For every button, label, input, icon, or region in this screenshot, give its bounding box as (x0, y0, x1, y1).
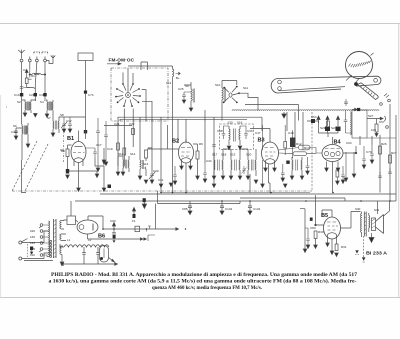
vert x167.5 (167, 125, 169, 149)
drum tick (371, 53, 374, 56)
junction FM square (84, 130, 87, 133)
svg-text:S16: S16 (237, 121, 243, 125)
svg-text:B1: B1 (67, 136, 74, 142)
svg-text:S17: S17 (212, 153, 218, 157)
B6 cathode down (87, 234, 89, 239)
pill box C51 (293, 152, 307, 156)
core hatch (54, 220, 57, 259)
wire B4 col (336, 177, 338, 181)
speaker cone (376, 215, 384, 234)
svg-text:R12: R12 (296, 142, 302, 146)
svg-text:L2: L2 (88, 238, 92, 242)
antenna A1 (18, 50, 24, 62)
svg-text:L1: L1 (67, 238, 71, 242)
resistor R1 (25, 78, 28, 84)
wire pills (279, 148, 317, 154)
junction dot B5 grid (315, 224, 317, 226)
capacitor C34 (203, 163, 207, 179)
wire top B+ feed (128, 65, 173, 67)
grid cap arc (385, 116, 386, 121)
chassis diagonal dashes (12, 141, 48, 191)
electrolytic C91 (112, 229, 116, 234)
bus step vertical (157, 191, 159, 204)
transformer S4/S5 right (46, 100, 53, 114)
selector dots column (50, 240, 52, 257)
feedthrough C2b (34, 93, 37, 96)
ground S2 (23, 113, 27, 117)
svg-text:S10: S10 (215, 83, 221, 87)
B2 pin grounds (180, 166, 193, 170)
tiny component labels (11, 68, 397, 257)
wire R30 (315, 239, 317, 246)
transformer S15 S16 (229, 126, 240, 145)
cap right of B4 (341, 166, 345, 180)
svg-text:C10: C10 (11, 130, 17, 134)
wires SK1 top stubs (123, 68, 133, 88)
svg-text:C64: C64 (346, 141, 352, 145)
coil S10 osc (222, 84, 225, 106)
FM dipole box (78, 53, 93, 61)
resistor R11 above B3 (284, 142, 287, 149)
wire A2 down (29, 62, 31, 69)
wire S13 down (140, 169, 146, 176)
svg-text:S2: S2 (17, 100, 21, 104)
svg-text:S23: S23 (320, 126, 326, 130)
anode arrows up (317, 116, 340, 123)
B+ bus (75, 200, 396, 202)
B+ dots (176, 72, 181, 75)
trimmer pair right (344, 99, 348, 106)
svg-text:C19: C19 (107, 147, 113, 151)
bus y203.5 segment (158, 201, 241, 204)
label B3 (258, 138, 265, 144)
B4 right column parts (336, 170, 339, 177)
svg-text:FM-OM·OC: FM-OM·OC (109, 58, 135, 63)
wire A3 lower (34, 96, 36, 101)
page boundary left (0, 95, 2, 298)
capacitor C1 ticks (20, 87, 30, 89)
wire down to HT (155, 204, 157, 230)
trimmer C13 (68, 117, 72, 129)
heater line right (148, 235, 155, 241)
tube B4 envelope (322, 145, 343, 162)
ground B1 under (95, 174, 99, 178)
grounds MF2 row (212, 176, 258, 184)
wire FM box lower (85, 94, 87, 139)
speaker hatch (372, 219, 376, 229)
svg-text:C31: C31 (158, 178, 164, 182)
box top stubs (141, 62, 148, 70)
arrow into box (352, 108, 357, 111)
svg-text:C39: C39 (247, 129, 253, 133)
ballast box (67, 216, 76, 225)
junction dot B4 (355, 152, 357, 154)
pill box C50 (299, 145, 311, 150)
svg-text:S12: S12 (166, 81, 172, 85)
svg-text:S18: S18 (221, 153, 227, 157)
mains terminal N (19, 257, 22, 260)
wires SK1 bottom verticals (118, 90, 146, 166)
ground S6 (26, 144, 30, 148)
svg-text:S31: S31 (374, 208, 380, 212)
svg-text:B5: B5 (321, 213, 328, 219)
switch SK1 contact dots (115, 83, 141, 107)
shield can dash vertical (311, 112, 313, 190)
B1 cathode resistor (66, 149, 69, 157)
B1 cathode (74, 158, 83, 160)
misc top-right ticks (384, 94, 389, 98)
B1 wires left (60, 145, 72, 169)
cap C33 ticks (212, 145, 216, 147)
B4 pin grounds (325, 168, 340, 172)
svg-text:C3b: C3b (39, 93, 45, 97)
scalloped dial cord band (232, 110, 379, 111)
svg-text:F1: F1 (132, 219, 136, 223)
small part x133 (132, 129, 135, 135)
rectifier B6 envelope (77, 220, 98, 234)
label FM-OM-OC (109, 58, 135, 63)
bottom psu rail (65, 263, 118, 266)
antenna terminal A3 (34, 52, 40, 62)
varcap C30 (149, 171, 156, 180)
svg-text:C90: C90 (110, 219, 116, 223)
label B5 (321, 213, 328, 219)
svg-text:C85: C85 (182, 207, 188, 211)
svg-text:C1b: C1b (14, 93, 20, 97)
blob B1k (66, 169, 69, 174)
choke filter humps (64, 245, 109, 247)
HT line y229 (103, 228, 179, 231)
svg-text:C54: C54 (311, 115, 317, 119)
svg-text:S11: S11 (243, 86, 248, 90)
svg-text:S19: S19 (230, 153, 236, 157)
junction dots psu (102, 228, 147, 230)
capacitor C71 (362, 146, 366, 165)
switch gang dashes (26, 244, 28, 257)
pivot blob (354, 82, 358, 86)
resistor R26 (379, 146, 382, 154)
wire grid lead (367, 117, 383, 120)
blob left of B5 (310, 218, 313, 221)
ground C30 (150, 180, 154, 184)
ground IF can (227, 146, 242, 150)
cap C52 (281, 164, 285, 178)
cap C53 (306, 157, 310, 171)
cap C85 left (188, 201, 192, 211)
choke left end (60, 244, 64, 247)
svg-text:S4: S4 (40, 100, 44, 104)
tuning drum circle (346, 52, 373, 79)
output transformer secondary (369, 213, 370, 232)
svg-text:S14: S14 (143, 162, 149, 166)
resistor R100 (375, 124, 378, 132)
pointer rod hatched (358, 83, 379, 100)
wire A3 down (35, 62, 37, 93)
ground C142 (220, 211, 224, 215)
arrow big right (102, 148, 106, 165)
mains switch (22, 231, 53, 261)
ground S4 (45, 114, 49, 118)
shield bus dash-dot (12, 190, 312, 192)
wire left vert A1 low (22, 160, 27, 193)
core hatch (364, 213, 366, 235)
B4 electrodes (324, 151, 328, 155)
B1 grid (73, 152, 85, 154)
output transformer core (364, 212, 366, 237)
triode B1 envelope (71, 142, 86, 163)
ground C20 (182, 100, 186, 103)
svg-text:C70: C70 (366, 150, 372, 154)
svg-text:220: 220 (30, 229, 35, 233)
B2 electrodes (181, 148, 191, 157)
wire C54 (307, 121, 338, 133)
MF3 transformer (292, 157, 302, 176)
svg-text:C7b: C7b (88, 93, 94, 97)
svg-text:B3: B3 (258, 138, 265, 144)
wire R11 (284, 125, 286, 155)
dash-dot B1 shield (63, 130, 65, 163)
feedthrough C7b (84, 91, 87, 94)
switch box on HT (135, 226, 140, 231)
svg-text:C1: C1 (23, 68, 27, 72)
switch SK2 hub (229, 93, 232, 97)
psu rail terminal (61, 263, 64, 266)
cap C32 (173, 166, 177, 181)
svg-text:C17: C17 (96, 143, 102, 147)
wire S-meter (346, 152, 354, 178)
filter cap C94 (96, 247, 100, 264)
pot arrow out (109, 258, 115, 263)
svg-text:S20: S20 (246, 153, 252, 157)
svg-text:R9: R9 (199, 142, 203, 146)
ground C32 (169, 181, 177, 187)
feedthrough C3b (43, 93, 46, 96)
small circle t1 (380, 103, 383, 106)
capacitor C10 (14, 128, 22, 136)
right verticals (360, 104, 396, 201)
wire C46 vertical (262, 125, 263, 184)
svg-text:R27: R27 (391, 151, 397, 155)
svg-text:S24: S24 (331, 126, 337, 130)
spark ticks (28, 69, 32, 79)
ground S7 (51, 133, 55, 137)
resistor R6 (145, 150, 148, 158)
svg-text:S9: S9 (185, 84, 189, 88)
transformer T primary winding (49, 221, 50, 257)
wire MF1 (118, 156, 140, 172)
wire SK1 right link (142, 101, 152, 121)
bus segment y198 (240, 198, 345, 201)
svg-text:B2: B2 (172, 139, 179, 145)
wire S8 to FM line (64, 116, 86, 118)
wire spark joins (27, 75, 45, 89)
tube B5 envelope (324, 217, 341, 239)
resistor R27 (389, 155, 392, 163)
dashed divider (363, 236, 365, 257)
grid cap C17 (86, 148, 97, 158)
heater wire top (245, 105, 299, 121)
mid bus lower (120, 119, 247, 121)
mid verticals (140, 112, 303, 193)
lone dot right (185, 228, 186, 229)
B5 electrodes (327, 222, 338, 230)
junction dots (29, 74, 30, 75)
spark gap arrow (25, 70, 28, 76)
ground S13 (138, 176, 148, 184)
B4 pins (327, 137, 339, 193)
wire R100 (375, 119, 378, 137)
cluster cap C15 (96, 118, 100, 168)
svg-text:S7: S7 (47, 116, 51, 120)
wire R9 (193, 144, 198, 176)
choke B+ (173, 66, 174, 80)
wire osc verticals (184, 81, 237, 121)
C91 tail (113, 238, 115, 242)
resistor x328 (327, 121, 330, 128)
mid bus upper (118, 117, 262, 121)
drum knurl hatch (349, 61, 371, 68)
B5 cathode arc (328, 233, 337, 235)
svg-text:S13: S13 (118, 152, 124, 156)
B5 pins (322, 210, 337, 251)
pot innards (103, 249, 105, 259)
capacitor C38 (222, 126, 229, 139)
ground B1k (66, 175, 70, 179)
wire into B5 (316, 195, 324, 225)
svg-text:C12: C12 (66, 119, 72, 123)
cap C54 blob (311, 119, 315, 123)
feedthrough C1b (20, 93, 23, 96)
svg-text:BI 233 A: BI 233 A (366, 251, 388, 257)
wire ballast (64, 201, 78, 222)
wire B4 anode right (343, 146, 356, 153)
svg-text:S6: S6 (13, 124, 17, 128)
blob near shield (108, 185, 112, 189)
AVC bus (100, 193, 396, 195)
output transformer primary (361, 212, 362, 238)
B2 pins (182, 139, 191, 193)
arrow up x134 (132, 208, 135, 219)
mains terminal L (19, 241, 22, 244)
wire S23 link (319, 131, 339, 137)
wire antenna A1 down (21, 62, 23, 93)
ground T (60, 262, 64, 266)
svg-text:C2b: C2b (29, 93, 35, 97)
page boundary top (0, 23, 400, 25)
bus junction dots (160, 192, 391, 202)
label B2 (172, 139, 179, 145)
capacitor C70 (370, 145, 374, 160)
ground under band (282, 112, 286, 118)
svg-text:C80: C80 (310, 226, 316, 230)
wire B5 anode (341, 212, 361, 229)
transformer S2/S3 left (22, 100, 36, 113)
wire R12 (292, 130, 294, 158)
cluster grounds (96, 162, 108, 172)
filter cap C93 (82, 247, 86, 264)
svg-text:C30: C30 (153, 169, 159, 173)
small circle r1 (386, 126, 389, 129)
svg-text:R30: R30 (318, 230, 324, 234)
grounds B5 left (306, 245, 317, 249)
wire SK2 step (239, 93, 258, 110)
svg-text:C47: C47 (255, 131, 261, 135)
page boundary right (398, 24, 400, 298)
svg-text:160: 160 (30, 235, 35, 239)
transformer T primary taps (39, 224, 43, 257)
svg-text:C143: C143 (253, 207, 261, 211)
B6 anode lead (88, 216, 103, 229)
transformer T core (54, 219, 57, 258)
B2 cathode arc (182, 158, 191, 160)
transformer T secondary winding (60, 221, 61, 255)
ground C85 (188, 211, 192, 215)
svg-text:S15: S15 (228, 121, 234, 125)
switch SK1 spokes (117, 85, 139, 105)
cord wire from drum (346, 75, 359, 82)
grid resistor R30 (314, 231, 317, 239)
B1 under-line (66, 171, 97, 174)
grounds B3 right (281, 171, 309, 188)
ground C143 (248, 211, 252, 215)
capacitor C39 (240, 126, 248, 139)
transformer S6 FM ant (22, 123, 28, 138)
svg-text:R13: R13 (304, 146, 310, 150)
svg-text:S30: S30 (355, 207, 361, 211)
label B1 (67, 136, 74, 142)
coil S1 (32, 73, 41, 74)
svg-text:C38: C38 (217, 129, 223, 133)
svg-text:quenza AM 460 kc/s; media freq: quenza AM 460 kc/s; media frequenza FM 1… (152, 286, 263, 291)
svg-text:C142: C142 (225, 207, 233, 211)
coil S13 (140, 158, 146, 169)
junction square right (357, 108, 360, 111)
wire x250 down (249, 174, 251, 193)
B5 cathode resistor (335, 244, 338, 251)
tap leads (43, 225, 49, 257)
tube B3 envelope (262, 142, 279, 164)
svg-text:C34: C34 (206, 159, 212, 163)
MF2 transformer S17 S18 (214, 156, 223, 176)
B1 pins (74, 131, 83, 189)
svg-text:B6: B6 (98, 234, 105, 240)
wire A4 lower (44, 96, 46, 101)
chassis ground small (355, 251, 359, 255)
MF1 transformer (123, 156, 129, 172)
ratio det box (352, 110, 367, 138)
B3 pin grounds (261, 168, 277, 188)
svg-text:B+: B+ (176, 76, 180, 80)
varcap C44 (242, 166, 247, 174)
ground C12 (62, 129, 66, 133)
resistor on x118 (117, 143, 120, 150)
mid bus left stub (104, 125, 132, 127)
B3 electrodes (265, 148, 276, 157)
cap C64 (344, 110, 352, 133)
mains cap arrow (30, 250, 33, 254)
dark resistor R12 (290, 138, 296, 148)
antenna A5 small (46, 55, 55, 64)
rail pivot circles (278, 80, 282, 84)
svg-text:S27: S27 (368, 114, 374, 118)
B3 pins (250, 129, 275, 193)
secondary leads (61, 221, 66, 263)
svg-text:5,6k: 5,6k (34, 72, 40, 76)
caps row far right (378, 168, 392, 178)
wire A4 down (44, 62, 46, 93)
svg-text:S14: S14 (130, 152, 136, 156)
B6 anode bar (92, 224, 94, 231)
